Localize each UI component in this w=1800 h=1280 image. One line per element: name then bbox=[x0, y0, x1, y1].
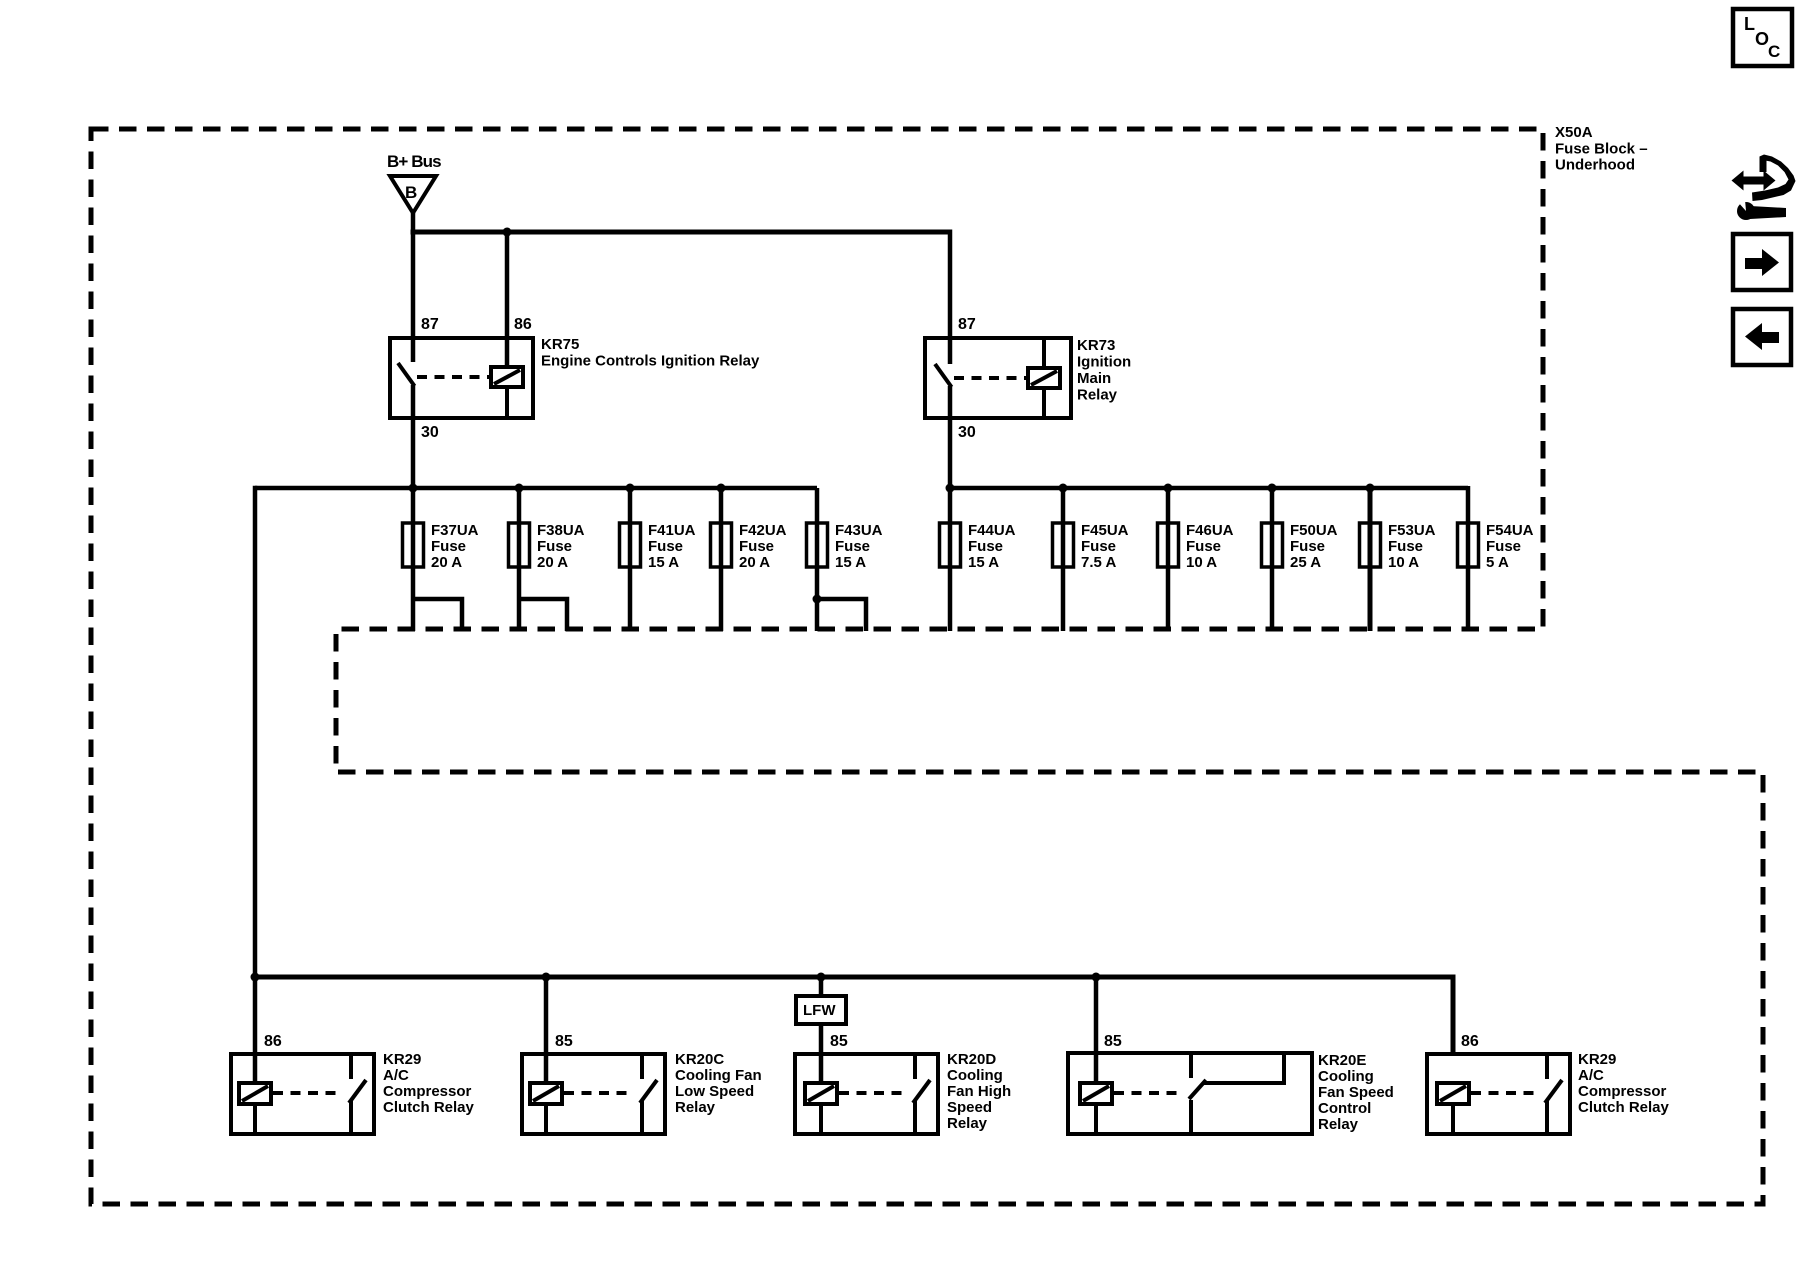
KR73 switch blade bbox=[935, 364, 952, 387]
svg-text:F46UA: F46UA bbox=[1186, 522, 1234, 539]
svg-text:F37UA: F37UA bbox=[431, 522, 479, 539]
KR29L coil bbox=[239, 1083, 271, 1104]
node F46 feed bbox=[1164, 484, 1173, 493]
svg-text:7.5 A: 7.5 A bbox=[1081, 554, 1116, 571]
svg-text:LFW: LFW bbox=[803, 1002, 836, 1019]
svg-text:F54UA: F54UA bbox=[1486, 522, 1534, 539]
KR20E switch bbox=[1189, 1053, 1193, 1078]
svg-text:KR29: KR29 bbox=[1578, 1051, 1616, 1068]
svg-text:C: C bbox=[1768, 42, 1780, 61]
fuse F45UA bbox=[1053, 488, 1129, 631]
node KR20E feed bbox=[1092, 973, 1101, 982]
relay KR73 bbox=[925, 338, 1071, 418]
KR29R switch bbox=[1545, 1054, 1549, 1079]
svg-text:Relay: Relay bbox=[1318, 1116, 1359, 1133]
svg-text:L: L bbox=[1744, 14, 1755, 34]
svg-text:15 A: 15 A bbox=[648, 554, 679, 571]
svg-text:Fuse: Fuse bbox=[431, 538, 466, 555]
node F37 feed bbox=[409, 484, 418, 493]
svg-text:Fuse: Fuse bbox=[1290, 538, 1325, 555]
svg-text:Fuse: Fuse bbox=[1388, 538, 1423, 555]
wire: bottom relay feed bus bbox=[255, 977, 1453, 1056]
wire to KR29 left pin 86 bbox=[253, 977, 258, 1083]
forward arrow icon bbox=[1733, 234, 1791, 290]
svg-text:10 A: 10 A bbox=[1388, 554, 1419, 571]
node F41 feed bbox=[626, 484, 635, 493]
svg-text:Fan Speed: Fan Speed bbox=[1318, 1084, 1394, 1101]
svg-text:F45UA: F45UA bbox=[1081, 522, 1129, 539]
svg-text:15 A: 15 A bbox=[835, 554, 866, 571]
svg-text:Fan High: Fan High bbox=[947, 1083, 1011, 1100]
back arrow icon bbox=[1733, 309, 1791, 365]
KR20E dashed actuator link bbox=[1114, 1091, 1181, 1095]
svg-text:Main: Main bbox=[1077, 370, 1111, 387]
svg-text:Relay: Relay bbox=[947, 1115, 988, 1132]
relay KR75 bbox=[390, 338, 533, 418]
wire from B+ triangle to bus bbox=[411, 213, 416, 234]
KR29L dashed actuator link bbox=[273, 1091, 341, 1095]
svg-text:Ignition: Ignition bbox=[1077, 354, 1131, 371]
node F50 feed bbox=[1268, 484, 1277, 493]
svg-text:20 A: 20 A bbox=[537, 554, 568, 571]
svg-text:30: 30 bbox=[421, 424, 439, 441]
wire F43UA branch bbox=[817, 599, 866, 631]
fuse F37UA bbox=[403, 488, 479, 631]
KR20C switch bbox=[640, 1054, 644, 1079]
svg-text:F38UA: F38UA bbox=[537, 522, 585, 539]
KR20E coil bbox=[1080, 1083, 1112, 1104]
KR20E switch output to box top bbox=[1204, 1055, 1284, 1083]
B+ Bus power symbol bbox=[390, 176, 436, 213]
svg-text:85: 85 bbox=[555, 1033, 573, 1050]
node F45 feed bbox=[1059, 484, 1068, 493]
KR20D dashed actuator link bbox=[839, 1091, 905, 1095]
fuse F46UA bbox=[1158, 488, 1234, 631]
wire to KR20E pin 85 bbox=[1094, 977, 1099, 1083]
svg-text:Engine Controls Ignition Relay: Engine Controls Ignition Relay bbox=[541, 353, 760, 370]
svg-text:Compressor: Compressor bbox=[383, 1083, 472, 1100]
KR20C dashed actuator link bbox=[564, 1091, 632, 1095]
svg-text:Underhood: Underhood bbox=[1555, 157, 1635, 174]
svg-text:F50UA: F50UA bbox=[1290, 522, 1338, 539]
svg-text:Fuse: Fuse bbox=[835, 538, 870, 555]
svg-text:KR20E: KR20E bbox=[1318, 1052, 1366, 1069]
splice LFW bbox=[796, 996, 846, 1024]
svg-text:A/C: A/C bbox=[383, 1067, 409, 1084]
svg-text:B+ Bus: B+ Bus bbox=[387, 152, 441, 171]
svg-text:Compressor: Compressor bbox=[1578, 1083, 1667, 1100]
svg-text:F42UA: F42UA bbox=[739, 522, 787, 539]
KR20D coil bbox=[805, 1083, 837, 1104]
svg-text:F44UA: F44UA bbox=[968, 522, 1016, 539]
svg-text:30: 30 bbox=[958, 424, 976, 441]
wire F37UA branch bbox=[413, 599, 462, 631]
svg-text:Low Speed: Low Speed bbox=[675, 1083, 754, 1100]
wire to KR75 pin 87 bbox=[411, 232, 416, 362]
svg-text:20 A: 20 A bbox=[739, 554, 770, 571]
node at KR75 pin 86 branch bbox=[503, 228, 512, 237]
svg-text:F43UA: F43UA bbox=[835, 522, 883, 539]
fuse F43UA bbox=[807, 488, 883, 631]
relay KR20C cooling fan low speed bbox=[522, 1054, 665, 1134]
svg-text:Fuse: Fuse bbox=[537, 538, 572, 555]
relay KR29 A/C compressor clutch (left) bbox=[231, 1054, 374, 1134]
KR75 coil bbox=[491, 367, 523, 387]
svg-text:20 A: 20 A bbox=[431, 554, 462, 571]
fuse F54UA bbox=[1458, 486, 1534, 631]
wire: left fuse bus bbox=[255, 486, 817, 491]
wire F38UA branch bbox=[519, 599, 567, 631]
node F44 feed bbox=[946, 484, 955, 493]
svg-text:F41UA: F41UA bbox=[648, 522, 696, 539]
svg-text:Fuse: Fuse bbox=[1186, 538, 1221, 555]
svg-text:Relay: Relay bbox=[1077, 387, 1118, 404]
svg-text:KR29: KR29 bbox=[383, 1051, 421, 1068]
relay KR29 A/C compressor clutch (right) bbox=[1427, 1054, 1570, 1134]
wire: right fuse bus bbox=[950, 486, 1468, 491]
svg-text:Cooling: Cooling bbox=[947, 1067, 1003, 1084]
wire to KR20D pin 85 through LFW bbox=[819, 977, 824, 1083]
svg-text:KR75: KR75 bbox=[541, 336, 579, 353]
svg-text:86: 86 bbox=[514, 316, 532, 333]
svg-text:F53UA: F53UA bbox=[1388, 522, 1436, 539]
wire to KR75 pin 86 coil bbox=[505, 232, 510, 368]
svg-text:85: 85 bbox=[1104, 1033, 1122, 1050]
node F38 feed bbox=[515, 484, 524, 493]
fuse F50UA bbox=[1262, 488, 1338, 631]
wire KR75 pin 30 down to left fuse bus bbox=[411, 385, 416, 490]
node KR20D feed bbox=[817, 973, 826, 982]
wire KR73 pin 30 down to right fuse bus bbox=[948, 386, 953, 490]
svg-text:A/C: A/C bbox=[1578, 1067, 1604, 1084]
svg-text:O: O bbox=[1755, 29, 1769, 49]
KR29L switch bbox=[349, 1054, 353, 1079]
svg-text:X50A: X50A bbox=[1555, 124, 1593, 141]
svg-text:Fuse: Fuse bbox=[1486, 538, 1521, 555]
fuse F42UA bbox=[711, 488, 787, 631]
node F43UA branch junction bbox=[813, 595, 822, 604]
svg-text:B: B bbox=[405, 183, 417, 202]
wire to KR20C pin 85 bbox=[544, 977, 549, 1083]
node F53 feed bbox=[1366, 484, 1375, 493]
svg-text:Fuse: Fuse bbox=[648, 538, 683, 555]
svg-text:Control: Control bbox=[1318, 1100, 1371, 1117]
svg-text:Cooling Fan: Cooling Fan bbox=[675, 1067, 762, 1084]
relay KR20E cooling fan speed control bbox=[1068, 1053, 1312, 1134]
svg-text:10 A: 10 A bbox=[1186, 554, 1217, 571]
svg-text:Clutch Relay: Clutch Relay bbox=[383, 1099, 475, 1116]
svg-text:86: 86 bbox=[1461, 1033, 1479, 1050]
relay KR20D cooling fan high speed bbox=[795, 1054, 938, 1134]
KR29R dashed actuator link bbox=[1471, 1091, 1537, 1095]
svg-text:Cooling: Cooling bbox=[1318, 1068, 1374, 1085]
node KR20C feed bbox=[542, 973, 551, 982]
svg-text:KR20D: KR20D bbox=[947, 1051, 996, 1068]
svg-text:KR20C: KR20C bbox=[675, 1051, 724, 1068]
fuse F38UA bbox=[509, 488, 585, 631]
KR73 coil bbox=[1028, 368, 1060, 388]
KR73 dashed actuator link bbox=[954, 376, 1026, 380]
wire to KR73 pin 87 bbox=[948, 230, 953, 365]
svg-text:Fuse: Fuse bbox=[1081, 538, 1116, 555]
fuse F41UA bbox=[620, 488, 696, 631]
svg-text:87: 87 bbox=[421, 316, 439, 333]
svg-text:Relay: Relay bbox=[675, 1099, 716, 1116]
KR20C coil bbox=[530, 1083, 562, 1104]
svg-text:Fuse Block –: Fuse Block – bbox=[1555, 141, 1648, 158]
tools/jump icon bbox=[1732, 155, 1796, 221]
KR75 switch blade bbox=[398, 363, 415, 386]
svg-text:87: 87 bbox=[958, 316, 976, 333]
svg-text:15 A: 15 A bbox=[968, 554, 999, 571]
node KR29 left feed bbox=[251, 973, 260, 982]
fuse F44UA bbox=[940, 488, 1016, 631]
LOC corner icon box bbox=[1733, 9, 1792, 66]
fuse block X50A dashed boundary bbox=[91, 129, 1763, 1204]
svg-text:85: 85 bbox=[830, 1033, 848, 1050]
fuse F53UA bbox=[1360, 488, 1436, 631]
svg-text:5 A: 5 A bbox=[1486, 554, 1509, 571]
KR20D switch bbox=[913, 1054, 917, 1079]
KR29R coil bbox=[1437, 1083, 1469, 1104]
svg-text:Speed: Speed bbox=[947, 1099, 992, 1116]
KR75 dashed actuator link bbox=[417, 375, 489, 379]
svg-text:Fuse: Fuse bbox=[968, 538, 1003, 555]
svg-text:KR73: KR73 bbox=[1077, 337, 1115, 354]
node F42 feed bbox=[717, 484, 726, 493]
wire: long left drop to bottom relay bus bbox=[253, 486, 258, 977]
X50A Fuse Block - Underhood label bbox=[1555, 124, 1648, 174]
svg-text:Clutch Relay: Clutch Relay bbox=[1578, 1099, 1670, 1116]
wire: top horizontal bus bbox=[411, 230, 951, 235]
svg-text:86: 86 bbox=[264, 1033, 282, 1050]
svg-text:25 A: 25 A bbox=[1290, 554, 1321, 571]
svg-text:Fuse: Fuse bbox=[739, 538, 774, 555]
